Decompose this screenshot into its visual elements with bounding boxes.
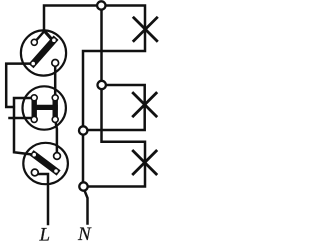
wire: S2 box bottom edge [10,117,34,120]
wire: bus B from node N1 down, corner to lamp EL3 feed, EL3 leg down, return to node N4 [84,9,146,187]
lamp EL3 [133,151,156,174]
switch S3 rotor end holes [32,153,36,157]
switch S1 contact bottom-right [52,60,59,67]
wire: link S1 bottom contact to S2 top-right contact [54,65,57,98]
node N1 [97,1,105,9]
lamp EL1 [134,18,157,41]
switch S1 top entry link to rotor end [44,31,52,40]
node N3 [79,126,87,134]
switch S2 right pole bar [53,98,58,120]
wire: S1 top terminal up to top rail, rail to lamp EL1, EL1 leg down, return to bus A, bus A down to N lead [44,6,145,189]
switch S3 contact top-right [54,153,61,160]
switch S2 left pole bar [32,98,37,120]
node N4 [79,182,87,190]
switch S1 rotor end holes [31,62,35,66]
switch S1 rotor bar [33,40,54,63]
node N2 [98,81,106,89]
svg-text:N: N [77,224,92,243]
switch S2 body circle [23,86,66,129]
wire: S2 box top edge, left edge down, lower corner to S3 left contact [14,98,34,154]
wire: S1 left terminal, left riser down, tick into S2 box [6,64,29,107]
wire: N lead below node N4 [84,188,88,224]
wire: S3 bottom-left contact to L lead [35,174,48,224]
switch S2 contact rings [31,95,37,101]
switch S1 contact top-left [31,39,37,45]
switch S1 body circle [21,30,66,75]
switch S2 cross bar [34,105,55,110]
lamp EL2 [133,93,156,116]
switch S3 body circle [23,143,68,184]
wire: lamp EL2 feed from node N2, EL2 leg down, return crossing bus B to node N3 [83,85,145,130]
switch S3 rotor bar [34,155,56,171]
svg-text:L: L [39,225,51,243]
switch S3 contact bottom-left [31,169,38,176]
switch S1 top entry link to contact top-left [37,31,45,40]
wire: link S2 bottom-right contact to S3 top-right contact [55,120,57,152]
